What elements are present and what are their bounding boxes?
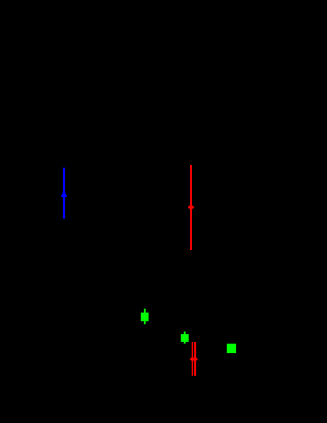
red upper-limit error bar	[190, 165, 192, 250]
red error bar right	[194, 342, 196, 376]
red error bar left	[191, 342, 193, 376]
green square marker 3	[227, 344, 236, 353]
red diamond marker left	[190, 358, 194, 361]
green error bar 1	[144, 309, 146, 325]
green square marker 1	[141, 313, 149, 322]
green square marker 2	[181, 334, 189, 342]
blue caret-up marker	[62, 192, 67, 197]
green error bar 2	[184, 332, 186, 344]
red diamond marker right	[193, 358, 197, 361]
red diamond marker	[189, 205, 194, 209]
blue lower-limit error bar	[63, 168, 65, 219]
